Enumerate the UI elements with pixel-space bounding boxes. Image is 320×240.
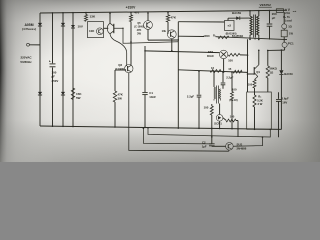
scr SCR1 xyxy=(216,115,223,122)
wire t2res down xyxy=(211,115,213,143)
capacitor 2.2uF drive xyxy=(222,72,224,82)
box snubber network xyxy=(225,21,235,31)
wire q1 res xyxy=(254,88,256,92)
wire bridge leg 2 with cap xyxy=(52,13,54,63)
junction dot base drive xyxy=(122,28,123,29)
resistor 100 q1 xyxy=(253,80,256,89)
wire Q4 emitter xyxy=(147,29,149,40)
wire bridge leg 1 xyxy=(39,13,41,126)
resistor 47K 3W xyxy=(113,91,116,102)
wire DIAC down xyxy=(223,59,225,72)
svg-text:10V: 10V xyxy=(78,25,83,29)
svg-text:50/60Hz: 50/60Hz xyxy=(20,60,32,64)
resistor 470 xyxy=(130,15,133,22)
wire SUS right xyxy=(233,137,262,146)
wire snubber xyxy=(228,17,250,19)
svg-text:Q2: Q2 xyxy=(118,63,122,67)
diode D4 A05M xyxy=(61,92,65,95)
wire Q3 emitter curve to Q2 xyxy=(110,34,127,66)
wire mid line xyxy=(148,128,270,137)
svg-text:15: 15 xyxy=(228,67,232,71)
svg-text:A05M: A05M xyxy=(24,23,33,27)
capacitor 2.2uF fb xyxy=(198,71,200,94)
wire PC1 bus xyxy=(268,49,285,51)
wire feedback rail xyxy=(247,39,249,92)
svg-text:out: out xyxy=(293,10,297,13)
junction dot C1 rail xyxy=(144,127,146,129)
optocoupler PC1 xyxy=(282,42,287,47)
meter M1 xyxy=(282,24,287,29)
wire output down 3 xyxy=(283,37,285,43)
svg-text:47K: 47K xyxy=(137,28,142,32)
svg-text:Load: Load xyxy=(285,19,292,23)
wire Q5 emitter xyxy=(171,39,173,51)
diode D2 A05M xyxy=(38,92,42,95)
svg-text:µF: µF xyxy=(52,74,56,78)
junction dot Q3 top xyxy=(109,12,111,14)
svg-text:350V: 350V xyxy=(52,79,59,83)
svg-text:(4 Pieces): (4 Pieces) xyxy=(22,27,36,31)
svg-text:2N4986: 2N4986 xyxy=(237,146,247,150)
wire PC1 down xyxy=(284,48,286,51)
resistor 100 scr xyxy=(226,119,236,122)
wire SUS bottom xyxy=(228,150,230,151)
junction dot C1 node xyxy=(144,50,146,52)
svg-text:Q1: Q1 xyxy=(256,70,260,74)
transformer T1 secondary xyxy=(257,16,259,36)
wire AC input xyxy=(29,44,40,46)
resistor 100 mid xyxy=(231,72,233,91)
svg-text:+310V: +310V xyxy=(126,5,136,9)
wire 13K top xyxy=(85,13,87,15)
junction dots bridge top xyxy=(52,12,54,14)
svg-text:BA1550Ω: BA1550Ω xyxy=(232,35,243,38)
resistor 56K xyxy=(267,50,269,65)
resistor 15K 5W xyxy=(71,88,74,100)
svg-text:2.2µF: 2.2µF xyxy=(226,75,233,79)
wire 238 down xyxy=(237,121,239,137)
junction dot Q2 collector node xyxy=(130,41,132,43)
wire 47K top xyxy=(167,12,169,15)
transistor Q6 circled xyxy=(96,28,103,35)
zener ZD 10V xyxy=(71,25,75,28)
wire diac res to fb rail xyxy=(240,54,248,56)
fuse F1 0.5A xyxy=(276,9,283,13)
resistor 100 diac xyxy=(228,53,240,56)
capacitor C 100uF 350V xyxy=(50,63,56,65)
svg-text:n3: n3 xyxy=(228,24,232,28)
transformer T2 right xyxy=(219,89,220,101)
box Rb xyxy=(247,92,272,129)
transformer T2 left xyxy=(213,72,215,87)
junction dot 47K3W rail xyxy=(114,126,116,128)
transistor Q3 xyxy=(113,24,115,33)
wire SCR down xyxy=(219,121,221,128)
wire to DIAC xyxy=(145,51,219,53)
wire Q2 collector xyxy=(130,22,132,65)
wire feedback box left xyxy=(177,22,179,128)
transformer T2 core xyxy=(216,86,218,104)
junction dot cap drive xyxy=(222,72,224,74)
resistor 12 xyxy=(210,70,221,73)
svg-text:R₇: R₇ xyxy=(213,34,216,38)
wire rail stub 143 xyxy=(143,128,211,144)
svg-text:100: 100 xyxy=(232,88,237,92)
wire 47K to Q5 xyxy=(167,22,169,34)
svg-text:13K: 13K xyxy=(90,15,96,19)
svg-text:100: 100 xyxy=(204,106,209,110)
wire C2 to SUS xyxy=(212,145,226,147)
diode D1 A05M xyxy=(38,23,42,26)
wire scr gate xyxy=(223,118,226,121)
transformer T1 primary xyxy=(250,16,252,36)
svg-text:BA159: BA159 xyxy=(284,72,293,76)
svg-text:5W: 5W xyxy=(76,96,81,100)
svg-text:470: 470 xyxy=(134,11,139,15)
wire feedback row xyxy=(178,35,204,37)
wire +310V top rail xyxy=(40,10,287,13)
transistor Q2 chopper xyxy=(125,64,133,72)
wire output down 1 xyxy=(283,12,285,23)
svg-text:16V: 16V xyxy=(282,100,287,104)
wire Q3 feed xyxy=(109,13,111,23)
svg-text:100: 100 xyxy=(248,82,253,86)
svg-text:3W: 3W xyxy=(118,96,123,100)
terminal AC input xyxy=(27,43,30,46)
diode BA159 snubber xyxy=(236,16,240,20)
svg-text:PC1: PC1 xyxy=(288,41,294,45)
junction dot T2 left xyxy=(213,71,215,73)
wire Q1 base xyxy=(248,73,255,75)
svg-text:1000: 1000 xyxy=(203,34,210,38)
svg-text:100: 100 xyxy=(228,59,233,63)
svg-text:47K: 47K xyxy=(171,16,177,20)
diac ST2 xyxy=(219,50,227,58)
transistor Q5 xyxy=(167,30,176,39)
svg-text:10k: 10k xyxy=(162,29,167,33)
wire Q3 base drive xyxy=(114,28,179,43)
capacitor C1 10nF xyxy=(144,46,146,92)
wire control bus xyxy=(178,70,247,73)
box R9 xyxy=(281,30,287,37)
svg-text:DIAC: DIAC xyxy=(207,54,215,58)
wire T1 secondary top xyxy=(258,11,260,16)
capacitor C3 200uF xyxy=(269,11,271,24)
svg-text:3 W: 3 W xyxy=(258,102,263,106)
resistor 100 t2 xyxy=(210,106,213,115)
svg-text:SCR1: SCR1 xyxy=(214,122,222,126)
svg-text:BA159: BA159 xyxy=(232,11,241,15)
wire T2 rail cross xyxy=(211,104,213,106)
wire 470 top xyxy=(130,12,132,14)
svg-text:VES702: VES702 xyxy=(260,3,272,7)
wire Q1 emitter xyxy=(254,79,256,81)
box oscillator feedback xyxy=(88,22,104,38)
wire Rb xyxy=(254,92,256,95)
transformer T1 core xyxy=(253,15,255,38)
resistor Rb xyxy=(253,95,256,107)
junction dots bridge bottom xyxy=(52,125,54,127)
wire T1 secondary bottom xyxy=(258,36,260,39)
svg-text:3W: 3W xyxy=(137,32,141,36)
svg-text:10K: 10K xyxy=(89,29,95,33)
wire 47K3W xyxy=(114,70,116,91)
svg-text:12: 12 xyxy=(211,66,215,70)
resistor 47K xyxy=(166,15,169,22)
transistor Q4 xyxy=(144,21,153,30)
diode BA159 fb xyxy=(280,50,282,70)
wire Q1 collector xyxy=(258,50,260,65)
wire output down 2 xyxy=(283,29,285,30)
wire Q3 base xyxy=(104,27,109,29)
svg-text:5.2K: 5.2K xyxy=(257,98,263,102)
wire T1 primary bottom xyxy=(249,36,251,39)
wire bottom ground rail xyxy=(40,126,281,129)
wire box top xyxy=(178,21,224,23)
svg-text:+: + xyxy=(49,59,51,63)
wire bridge leg 4 xyxy=(72,13,74,127)
sus SUS 2N4986 xyxy=(226,143,234,151)
wire scr res right xyxy=(236,120,238,122)
wire Q4 collector xyxy=(147,13,149,21)
transistor Q1 xyxy=(253,67,255,75)
diode D3 A05M xyxy=(61,23,65,26)
capacitor C2 1uF xyxy=(211,142,213,145)
svg-text:1µF: 1µF xyxy=(202,144,207,148)
svg-text:2.2µF: 2.2µF xyxy=(187,94,194,98)
svg-text:µF: µF xyxy=(272,16,276,20)
wire bridge leg 3 xyxy=(62,13,64,127)
resistor 15 xyxy=(233,70,242,73)
resistor R7 xyxy=(218,36,229,39)
capacitor 3.6uF xyxy=(278,92,280,99)
wire snubber bend xyxy=(227,18,229,20)
resistor 13K xyxy=(85,15,88,22)
wire T2 to SCR xyxy=(219,104,221,115)
svg-text:(C-1060): (C-1060) xyxy=(134,26,144,29)
wire Q2 emitter down xyxy=(129,73,229,151)
svg-text:(A14U): (A14U) xyxy=(229,98,237,102)
svg-text:1W: 1W xyxy=(289,31,293,35)
svg-text:10nF: 10nF xyxy=(149,95,156,99)
wire T1 primary top xyxy=(249,11,251,16)
